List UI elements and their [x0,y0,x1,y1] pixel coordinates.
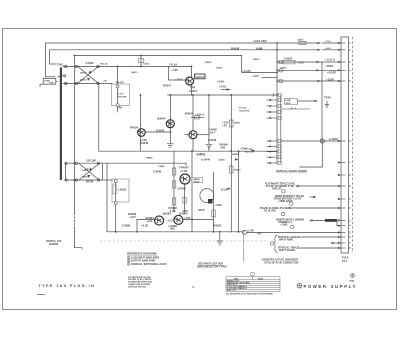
svg-text:6.8M: 6.8M [256,46,263,50]
svg-text:+L4044: +L4044 [201,158,211,162]
svg-text:BLOCKS: BLOCKS [245,151,255,153]
svg-text:+12V: +12V [298,61,305,65]
svg-text:R4017: R4017 [163,84,172,88]
svg-text:REFERENCE DIAGRAMS: REFERENCE DIAGRAMS [127,253,157,256]
svg-text:R4051: R4051 [234,122,241,125]
svg-text:TP 40: TP 40 [194,180,201,183]
svg-text:L4015: L4015 [216,67,223,70]
svg-text:C4052: C4052 [284,57,293,61]
svg-text:+12.2-A: +12.2-A [325,58,335,62]
svg-text:SEMICONDUCTOR TYPES: SEMICONDUCTOR TYPES [197,266,227,269]
svg-text:SHIFT SIGNAL: SHIFT SIGNAL [279,249,296,252]
svg-text:+B: +B [257,232,261,236]
svg-text:C4043: C4043 [156,128,165,132]
svg-text:DATE: DATE [258,277,264,280]
svg-text:TO SLAVE: TO SLAVE [264,209,276,212]
svg-text:560: 560 [221,145,226,149]
svg-text:R4041: R4041 [185,112,194,116]
svg-text:+4.05: +4.05 [141,223,149,227]
svg-text:L4033: L4033 [118,188,126,192]
svg-text:+10.7: +10.7 [208,130,216,134]
svg-text:+L40: +L40 [247,228,254,232]
svg-text:R4042: R4042 [146,156,153,159]
svg-text:T601: T601 [57,63,64,67]
svg-text:R4052: R4052 [232,153,239,156]
svg-text:C4049: C4049 [208,138,217,142]
svg-text:+24.8: +24.8 [325,47,331,50]
svg-text:R4024: R4024 [130,126,139,130]
svg-text:+R4: +R4 [117,105,123,109]
svg-text:+ GND: + GND [280,224,288,227]
svg-text:TP40: TP40 [324,96,331,100]
svg-text:+24.8: +24.8 [219,85,227,89]
svg-text:+TRIG: +TRIG [325,64,333,68]
svg-text:R4014: R4014 [205,61,212,64]
svg-text:OVERALL SWITCHING LOGIC: OVERALL SWITCHING LOGIC [131,263,167,266]
svg-text:+GATE: +GATE [327,71,336,75]
svg-text:+10.8V: +10.8V [242,69,251,73]
svg-text:POWER SUPPLY: POWER SUPPLY [304,284,358,289]
svg-text:560: 560 [170,227,175,231]
svg-text:+C4H: +C4H [217,80,224,84]
svg-text:CIRCUIT: CIRCUIT [272,187,282,190]
svg-text:R4046: R4046 [140,141,149,145]
svg-text:Q4014: Q4014 [195,75,204,79]
svg-text:+B40: +B40 [215,203,222,207]
svg-text:+12V A: +12V A [195,113,204,117]
svg-text:C4086: C4086 [122,223,131,227]
svg-text:C4045: C4045 [153,170,162,174]
svg-text:TYPE 1A6 PLUG-IN: TYPE 1A6 PLUG-IN [39,284,96,288]
svg-text:R4053: R4053 [234,169,241,172]
svg-text:R4097: R4097 [213,223,222,227]
svg-text:Q4044: Q4044 [157,116,166,120]
svg-text:+1.06: +1.06 [180,169,188,173]
svg-text:R4008: R4008 [231,46,240,50]
svg-text:ETCH OF PLUG CONNECTOR: ETCH OF PLUG CONNECTOR [265,261,299,264]
svg-text:120 1W: 120 1W [86,159,96,163]
svg-text:+B +C: +B +C [290,108,297,110]
svg-text:SEC 40: SEC 40 [100,63,108,66]
svg-text:C4012: C4012 [143,63,150,66]
svg-text:+L4010: +L4010 [329,137,339,141]
svg-text:RHB: RHB [350,281,355,283]
svg-text:DC40: DC40 [86,180,94,184]
svg-text:C4054: C4054 [218,159,225,162]
svg-text:D4004: D4004 [80,79,87,82]
svg-text:+12V: +12V [129,215,136,219]
svg-text:+12V: +12V [252,74,259,78]
svg-text:D4002: D4002 [80,72,87,75]
svg-text:R4019: R4019 [253,58,260,61]
svg-text:VERTICAL SIGNAL BOARD: VERTICAL SIGNAL BOARD [276,170,307,173]
svg-text:+125: +125 [172,68,179,72]
svg-text:5-137: 5-137 [118,94,124,96]
svg-text:TK4 R: TK4 R [116,80,124,84]
svg-text:TO ALL: TO ALL [245,147,253,150]
svg-text:R4 OHM: R4 OHM [118,95,127,98]
svg-text:MOD 1 2 3: MOD 1 2 3 [227,290,236,292]
svg-text:INPUT AMPL: INPUT AMPL [279,238,294,241]
svg-text:C4002: C4002 [86,61,95,65]
svg-text:+0.6: +0.6 [147,219,153,223]
svg-text:+10.8 VDC: +10.8 VDC [253,39,267,43]
svg-text:12.5K: 12.5K [221,187,228,191]
svg-text:+4V: +4V [222,124,227,128]
svg-text:D4032: D4032 [82,176,89,179]
svg-text:+2.5: +2.5 [168,218,174,222]
svg-text:TRN: TRN [49,83,54,85]
svg-text:SHOWN: SHOWN [49,243,58,246]
svg-text:R4013: R4013 [131,71,138,74]
svg-text:CIRCUITS: CIRCUITS [239,111,250,113]
svg-text:+125V: +125V [326,77,334,81]
svg-text:TO ALL: TO ALL [239,107,247,110]
svg-text:F4.1A: F4.1A [170,62,178,66]
svg-text:+TIME BASE: +TIME BASE [278,200,293,203]
svg-text:C4017: C4017 [189,89,198,93]
svg-text:+10.8: +10.8 [175,78,183,82]
svg-text:+10.8: +10.8 [325,41,331,43]
svg-text:C4051: C4051 [297,39,304,42]
svg-text:W4C: W4C [199,208,205,212]
svg-text:+150: +150 [184,216,191,220]
svg-text:ALL READINGS AT 5V TIME BASE P: ALL READINGS AT 5V TIME BASE POSITION NO… [226,293,273,296]
svg-text:C4056: C4056 [280,67,287,70]
svg-text:+12V: +12V [197,154,203,156]
svg-text:Q4084: Q4084 [163,211,172,215]
svg-text:TRIG: TRIG [285,103,291,105]
svg-text:WITHOUT NOTICE: WITHOUT NOTICE [128,286,146,288]
svg-text:4.7K: 4.7K [182,209,188,213]
svg-text:C4049: C4049 [178,187,187,191]
svg-text:C4044: C4044 [158,165,165,168]
svg-text:P1-2: P1-2 [342,260,348,263]
svg-text:D4031: D4031 [82,169,89,172]
